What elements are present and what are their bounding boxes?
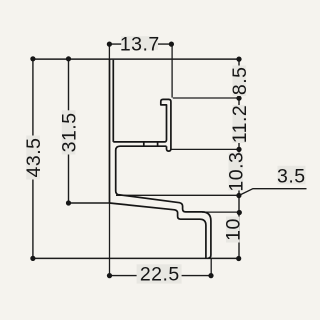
wire extension 31.5 bottom y=203 — [69, 202, 110, 204]
wire leader 3.5 — [239, 189, 307, 196]
svg-text:43.5: 43.5 — [23, 138, 45, 178]
svg-text:3.5: 3.5 — [277, 165, 306, 187]
node lower piece upper contour: band underside, wall, arm, step, plate, foot outer — [116, 146, 211, 258]
wire dimension line 13.7 y=44.2 — [109, 43, 171, 45]
wire extension plate top y=212.1 — [202, 211, 239, 213]
node wall left edge — [109, 59, 111, 203]
node lower piece lower contour: arm underside, step, plate underside, foot inner — [110, 203, 206, 258]
wire right dimension column x=239 — [238, 59, 240, 259]
node band tick 2 — [157, 142, 159, 146]
svg-text:31.5: 31.5 — [59, 112, 81, 152]
svg-text:22.5: 22.5 — [140, 264, 180, 286]
wire extension arm corner y=195.3 — [116, 194, 239, 196]
wire dimension line 31.5 vertical — [68, 59, 70, 203]
wire extension 22.5 right x=211.2 — [210, 258, 212, 275]
label patches — [26, 36, 305, 283]
node upper piece band top + hook blade + lip outline — [113, 99, 171, 151]
wire bottom extension line y=258.4 full width — [32, 257, 239, 259]
wire top extension line y=59 full width — [32, 58, 239, 60]
node band tick 1 — [143, 142, 145, 146]
node dimension dots — [30, 42, 242, 279]
wire extension hook top y=98.2 — [173, 97, 239, 99]
wire dimension line 22.5 y=275.6 — [110, 275, 212, 277]
svg-text:8.5: 8.5 — [229, 66, 251, 95]
svg-text:10: 10 — [223, 218, 245, 241]
svg-text:10.3: 10.3 — [225, 152, 247, 192]
wire extension 13.7 right drop — [171, 44, 173, 98]
svg-text:11.2: 11.2 — [229, 105, 251, 144]
wire extension 22.5 left x=109.5 — [109, 203, 111, 276]
wire extension 13.7 left drop — [108, 44, 110, 59]
node wall right edge — [112, 60, 114, 142]
wire extension blade bottom y=149.4 — [171, 148, 240, 150]
svg-text:13.7: 13.7 — [120, 34, 160, 56]
wire dimension line 43.5 vertical — [32, 59, 34, 259]
